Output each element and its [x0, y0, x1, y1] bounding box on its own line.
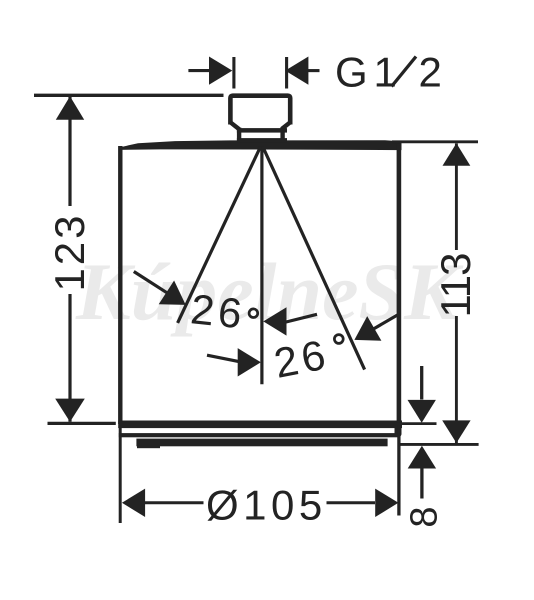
- spray plate left step: [137, 441, 160, 448]
- dim 113 top extension line: [392, 140, 478, 143]
- dim O105 right extension line: [397, 424, 400, 516]
- dim 123 line upper segment: [68, 97, 71, 207]
- svg-text:113: 113: [432, 254, 479, 318]
- dim G1/2 right tail line: [308, 69, 320, 72]
- spray plate face: [136, 439, 387, 447]
- left spray angle line: [178, 147, 261, 323]
- svg-text:2: 2: [419, 49, 442, 96]
- nut collar bar lower: [237, 138, 287, 143]
- dim O105 arrow left: [122, 489, 145, 517]
- showerhead body left edge: [118, 146, 122, 424]
- svg-text:123: 123: [46, 212, 93, 291]
- connector nut upper block: [230, 96, 290, 125]
- angle 26 lower left leader: [207, 355, 240, 362]
- dim 8 arrow up: [408, 446, 436, 469]
- bottom rim right curl: [395, 421, 402, 438]
- angle 26 lower right leader: [373, 314, 399, 329]
- nut lower right side: [280, 128, 284, 142]
- dim G1/2 left tail line: [188, 69, 210, 72]
- angle 26 upper degree circle: [249, 309, 258, 318]
- svg-text:G: G: [335, 49, 368, 96]
- dim 8 lower leader line: [420, 468, 423, 499]
- dim 8 upper leader line: [420, 366, 423, 400]
- nut left step: [230, 122, 239, 129]
- dim 8 top extension line: [396, 422, 437, 425]
- nut collar bar upper: [237, 128, 287, 133]
- dim O105 line left segment: [145, 501, 204, 504]
- showerhead body top face: [119, 140, 402, 150]
- angle 26 lower degree circle: [334, 335, 343, 344]
- dim 123 bottom extension line: [48, 422, 116, 425]
- angle 26 upper right leader: [284, 314, 317, 322]
- svg-text:Ø105: Ø105: [206, 482, 327, 529]
- svg-text:26: 26: [189, 285, 248, 337]
- dim 113 arrow down: [442, 420, 470, 443]
- dim 113 line upper segment: [455, 143, 458, 250]
- dim 123 line lower segment: [68, 294, 71, 422]
- nut right step: [282, 122, 291, 129]
- svg-text:8: 8: [403, 506, 445, 527]
- angle 26 upper leader: [134, 272, 167, 293]
- svg-text:1: 1: [374, 49, 397, 96]
- showerhead body right edge: [397, 141, 402, 424]
- dim 113 bottom extension line: [400, 443, 479, 446]
- dim 8 arrow down: [408, 400, 436, 423]
- angle 26 upper arrow at center line: [263, 307, 286, 335]
- dim 123 arrow down: [55, 399, 85, 422]
- dim 123 top extension line: [34, 94, 224, 97]
- dim O105 arrow right: [375, 489, 398, 517]
- dim 113 arrow up: [443, 143, 471, 166]
- dim O105 line right segment: [327, 501, 376, 504]
- angle 26 lower arrow at right spray line: [354, 316, 381, 341]
- center spray axis line: [260, 147, 263, 385]
- body bottom rim band: [118, 421, 402, 429]
- dim G1/2 arrow right: [209, 57, 232, 85]
- dim O105 left extension line: [119, 424, 122, 523]
- nut lower left side: [237, 128, 241, 142]
- dim G1/2 arrow left: [285, 57, 308, 85]
- right spray angle line: [263, 147, 365, 370]
- dim G1/2 label slash: [392, 57, 417, 87]
- angle 26 upper arrow at left spray line: [159, 281, 186, 305]
- spray plate top line: [119, 433, 401, 437]
- angle 26 lower arrow at center line: [238, 348, 261, 376]
- dim 123 arrow up: [56, 96, 84, 120]
- dim G1/2 left extension line: [232, 57, 235, 89]
- dim G1/2 right extension line: [285, 57, 288, 89]
- dim 113 line lower segment: [455, 316, 458, 443]
